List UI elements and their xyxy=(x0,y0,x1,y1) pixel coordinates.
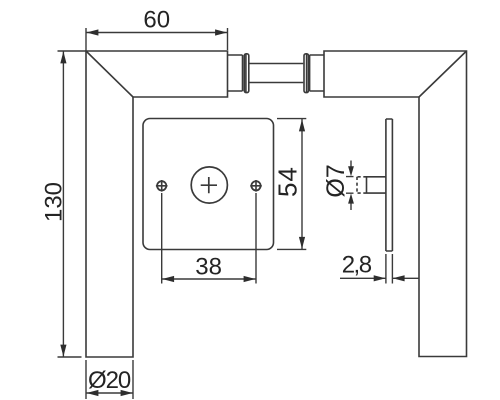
arrowhead 2,8 right xyxy=(393,275,405,281)
dimension 38 extension lines xyxy=(162,193,256,284)
svg-text:Ø7: Ø7 xyxy=(322,164,350,197)
arrowhead D7 top xyxy=(348,166,354,176)
arrowhead 60 right xyxy=(215,29,227,35)
arrowhead 54 top xyxy=(299,119,305,131)
left handle miter joint line xyxy=(86,51,133,97)
arrowhead 60 left xyxy=(86,29,98,35)
svg-text:130: 130 xyxy=(41,182,68,222)
spindle bar xyxy=(249,64,303,83)
arrowhead 2,8 left xyxy=(374,275,386,281)
dimension D20 line xyxy=(86,392,133,394)
dimension 54 line xyxy=(301,119,303,249)
dimension 2,8 lines xyxy=(340,277,419,279)
dimension D20 extension lines xyxy=(86,360,133,399)
arrowhead 54 bottom xyxy=(299,237,305,249)
arrowhead D7 bottom xyxy=(348,193,354,203)
spindle hole circle with cross xyxy=(191,167,227,203)
right lever handle outline (front view) xyxy=(324,51,467,357)
rose plate side view xyxy=(386,119,393,251)
dimension 60 line xyxy=(86,32,228,34)
dimension 130 line xyxy=(62,51,64,357)
dimension 2,8 extension lines xyxy=(386,254,393,284)
svg-text:54: 54 xyxy=(273,166,303,197)
right handle neck xyxy=(310,55,324,91)
right screw xyxy=(251,181,260,190)
arrowhead 38 right xyxy=(244,276,256,282)
left screw xyxy=(157,181,166,190)
svg-text:Ø20: Ø20 xyxy=(88,367,131,394)
dimension 38 line xyxy=(162,278,256,280)
right handle collar ring xyxy=(304,54,309,93)
spindle stub solid part xyxy=(367,177,386,193)
dimension 60 extension lines xyxy=(86,28,228,51)
arrowhead D20 left xyxy=(86,390,98,396)
svg-text:38: 38 xyxy=(195,254,222,281)
spindle stub hidden part (dashed) xyxy=(357,177,367,193)
left handle collar ring xyxy=(244,54,249,93)
left lever handle outline (front view) xyxy=(86,51,228,357)
dimension 54 extension lines xyxy=(277,119,306,250)
dimension D7 arrow stems xyxy=(350,161,352,211)
arrowhead 38 left xyxy=(162,276,174,282)
arrowhead 130 top xyxy=(60,51,66,63)
svg-text:2,8: 2,8 xyxy=(342,252,372,279)
dimension D7 extension ticks xyxy=(346,177,354,194)
left handle neck xyxy=(228,55,243,91)
arrowhead D20 right xyxy=(121,390,133,396)
right handle miter joint line xyxy=(419,51,467,97)
dimension 130 extension lines xyxy=(58,51,87,357)
square rose plate (front view) xyxy=(143,119,274,250)
svg-text:60: 60 xyxy=(143,7,170,34)
arrowhead 130 bottom xyxy=(60,345,66,357)
